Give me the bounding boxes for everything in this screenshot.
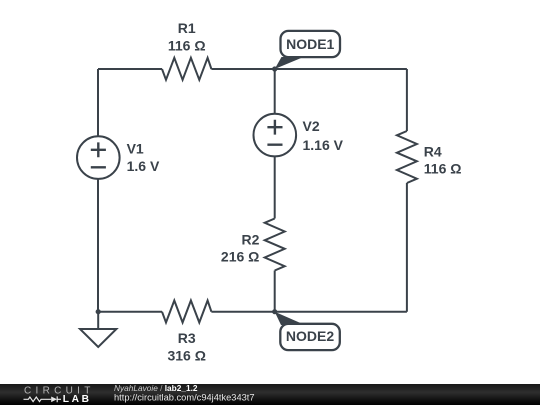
wire center vertical from R2 to NODE2 xyxy=(274,271,276,312)
wire top-left horizontal from left column corner to R1 xyxy=(98,68,162,70)
wire center vertical from V2 to R2 xyxy=(274,156,276,218)
wire top-right horizontal from R1 to right column corner xyxy=(211,68,407,70)
svg-text:116 Ω: 116 Ω xyxy=(168,37,206,53)
ground symbol xyxy=(80,312,116,347)
svg-text:R2: R2 xyxy=(241,231,259,247)
svg-text:216 Ω: 216 Ω xyxy=(221,248,259,264)
resistor R3 316 ohm xyxy=(162,301,211,364)
svg-text:116 Ω: 116 Ω xyxy=(424,161,462,177)
resistor R2 216 ohm xyxy=(221,219,285,271)
svg-text:NODE2: NODE2 xyxy=(286,328,334,344)
svg-text:R4: R4 xyxy=(424,144,442,160)
svg-text:316 Ω: 316 Ω xyxy=(167,347,205,363)
voltage source V2 1.16 V xyxy=(253,114,343,157)
footer bar xyxy=(0,384,540,405)
wire right column upper vertical xyxy=(406,69,408,131)
wire bottom horizontal from R3 to right column xyxy=(211,311,407,313)
svg-text:R3: R3 xyxy=(178,330,196,346)
svg-text:V2: V2 xyxy=(303,118,320,134)
resistor R1 116 ohm xyxy=(162,20,211,80)
CircuitLab logo resistor-diode waveform xyxy=(24,396,62,402)
node junction dot at NODE1 xyxy=(272,66,277,71)
svg-text:LAB: LAB xyxy=(63,394,92,405)
voltage source V1 1.6 V xyxy=(77,136,160,179)
node label NODE2 callout xyxy=(275,312,340,350)
wire left column upper vertical xyxy=(97,69,99,136)
node junction dot at NODE2 xyxy=(272,309,277,314)
svg-text:V1: V1 xyxy=(127,141,144,157)
wire center vertical from NODE1 to V2 xyxy=(274,69,276,114)
svg-text:1.16 V: 1.16 V xyxy=(303,137,344,153)
node junction dot at ground xyxy=(96,309,101,314)
svg-text:R1: R1 xyxy=(178,20,196,36)
node label NODE1 callout xyxy=(275,31,340,69)
wire left column lower vertical xyxy=(97,179,99,312)
wire bottom-left horizontal from ground node to R3 xyxy=(98,311,162,313)
resistor R4 116 ohm xyxy=(397,131,462,183)
svg-text:NODE1: NODE1 xyxy=(286,36,334,52)
wire right column lower vertical xyxy=(406,183,408,312)
svg-text:1.6 V: 1.6 V xyxy=(127,158,160,174)
svg-text:http://circuitlab.com/c94j4tke: http://circuitlab.com/c94j4tke343t7 xyxy=(114,392,255,402)
